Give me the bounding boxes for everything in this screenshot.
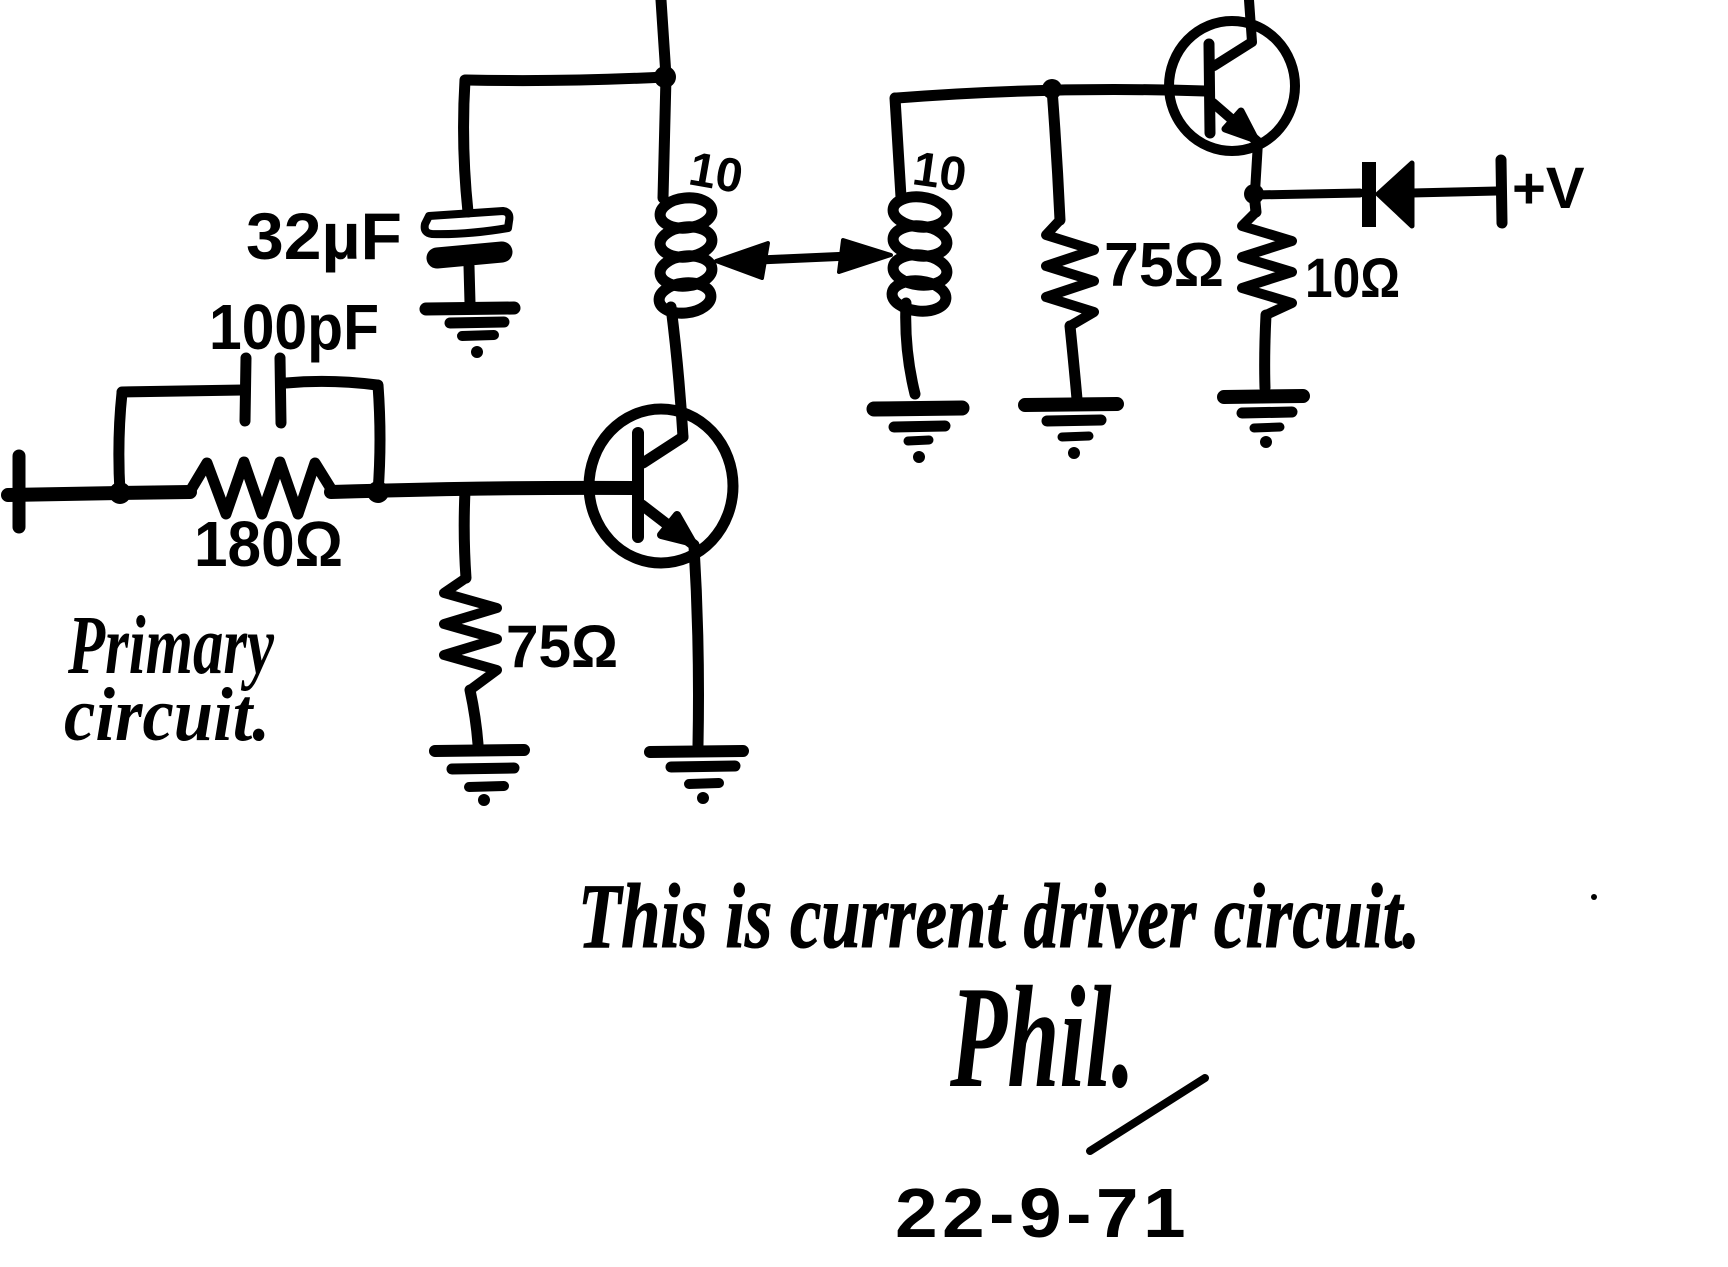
svg-text:10: 10	[685, 143, 747, 204]
svg-text:This is current driver circuit: This is current driver circuit.	[578, 865, 1420, 967]
svg-text:100pF: 100pF	[209, 291, 379, 363]
svg-text:180Ω: 180Ω	[194, 508, 343, 580]
svg-text:22-9-71: 22-9-71	[895, 1174, 1190, 1252]
svg-text:Phil.: Phil.	[949, 956, 1135, 1118]
svg-text:+V: +V	[1512, 156, 1585, 221]
svg-text:10: 10	[909, 142, 969, 202]
svg-text:circuit.: circuit.	[64, 673, 270, 757]
svg-text:75Ω: 75Ω	[1104, 231, 1224, 300]
svg-text:10Ω: 10Ω	[1305, 246, 1400, 309]
svg-text:75Ω: 75Ω	[506, 613, 618, 680]
svg-text:32µF: 32µF	[246, 199, 402, 273]
